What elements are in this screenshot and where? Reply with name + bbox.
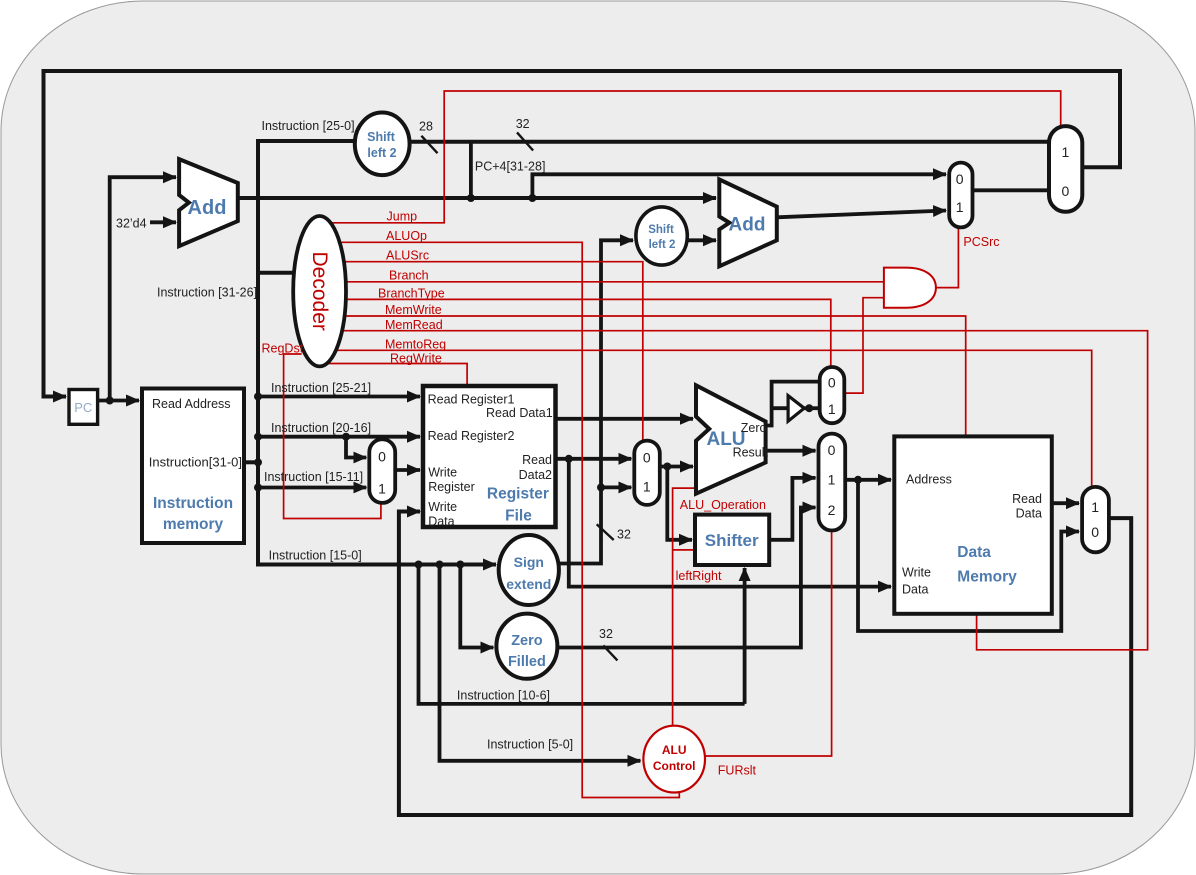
- svg-text:Instruction[31-0]: Instruction[31-0]: [149, 455, 242, 470]
- wire: instruction bus from memory up to Shift left 2 and down to Instruction[15-0] into Sign extend: [258, 141, 496, 565]
- junction Instruction[20-16] branch: [342, 433, 350, 441]
- wire: NOT gate input stub: [772, 406, 789, 410]
- svg-text:FURslt: FURslt: [718, 764, 757, 778]
- svg-text:Read Register1: Read Register1: [428, 393, 515, 407]
- junction bus Instruction[15-11]: [254, 484, 262, 492]
- wire: RegDst control to RegDst mux select: [284, 354, 381, 519]
- zero filled ellipse: [496, 614, 557, 679]
- bus width slash 32 (jump address): [517, 132, 533, 150]
- wire: Shifter output to result mux input 1: [769, 478, 815, 540]
- wire: BranchType control to branch-type mux select: [345, 299, 831, 367]
- sign extend ellipse: [499, 535, 559, 605]
- wire: result mux output to Data Memory Address: [845, 478, 891, 482]
- svg-text:Instruction [10-6]: Instruction [10-6]: [457, 689, 550, 703]
- decoder ellipse: [293, 216, 346, 366]
- wire: Read Data2 to ALUSrc mux input 0: [556, 457, 632, 461]
- wire: result bypass below Data Memory to write-back mux input 0: [858, 480, 1079, 631]
- PC register box: [69, 390, 98, 425]
- wire: MemRead control around right side to Data Memory bottom: [342, 331, 1148, 650]
- svg-text:ALUSrc: ALUSrc: [386, 249, 429, 263]
- svg-text:Jump: Jump: [387, 210, 418, 224]
- junction sign extend branch: [597, 483, 605, 491]
- bus width slash 28: [421, 136, 437, 153]
- wire: RegWrite control to Register File: [327, 364, 468, 386]
- svg-text:1: 1: [956, 199, 964, 215]
- svg-text:32: 32: [617, 528, 631, 542]
- mux branch-type (0/1): [820, 367, 845, 423]
- junction NOT gate output: [805, 404, 813, 412]
- svg-text:Shifter: Shifter: [705, 531, 759, 550]
- wire: ALUSrc mux output branch to Shifter input: [667, 467, 692, 540]
- svg-text:Write: Write: [902, 566, 931, 580]
- svg-text:Register: Register: [487, 486, 549, 503]
- svg-text:ALU_Operation: ALU_Operation: [680, 498, 766, 512]
- svg-text:Branch: Branch: [389, 269, 429, 283]
- svg-text:Instruction [31-26]: Instruction [31-26]: [157, 286, 257, 300]
- mux write-back (1/0): [1082, 487, 1109, 552]
- wire: PC output up to Add1 top input: [110, 177, 176, 400]
- svg-text:0: 0: [1062, 183, 1070, 199]
- svg-text:Shift: Shift: [367, 130, 396, 144]
- wire: 32'd4 constant into Add1: [150, 220, 176, 224]
- svg-text:Write: Write: [428, 466, 457, 480]
- wire: Read Data1 to ALU top input: [556, 417, 694, 421]
- wire: ALU Zero output to branch-type mux input 0: [766, 382, 820, 426]
- wire: ALUOp control down and around to ALU Control: [339, 242, 679, 797]
- svg-text:32’d4: 32’d4: [116, 217, 147, 231]
- svg-text:1: 1: [643, 479, 651, 495]
- svg-text:0: 0: [828, 442, 836, 458]
- svg-text:28: 28: [419, 120, 433, 134]
- wire: ALUSrc mux output to ALU bottom input: [660, 465, 693, 469]
- svg-text:Register: Register: [428, 480, 475, 494]
- svg-text:Sign: Sign: [514, 554, 544, 570]
- svg-text:Result: Result: [733, 446, 769, 460]
- svg-text:RegDst: RegDst: [262, 342, 304, 356]
- svg-text:PCSrc: PCSrc: [963, 235, 999, 249]
- wire: PCSrc mux output to jump mux input 0: [973, 188, 1050, 192]
- svg-text:Control: Control: [653, 759, 696, 773]
- wire: instruction memory output to bus: [244, 460, 258, 464]
- wire: ALU Result to result mux input 0: [766, 449, 816, 453]
- adder Add1 (PC+4): [179, 159, 238, 246]
- svg-text:32: 32: [516, 117, 530, 131]
- junction Instruction[15-0] a: [415, 561, 423, 569]
- svg-text:0: 0: [643, 450, 651, 466]
- svg-text:Data: Data: [957, 544, 991, 561]
- wire: Shift left 2 (branch) output into Add2: [687, 238, 716, 242]
- svg-text:Read: Read: [522, 453, 552, 467]
- junction jump address: [467, 194, 475, 202]
- svg-text:RegWrite: RegWrite: [390, 351, 442, 365]
- svg-text:2: 2: [828, 502, 836, 518]
- junction bus Instruction[20-16]: [254, 433, 262, 441]
- svg-text:Instruction: Instruction: [153, 495, 233, 512]
- wire: NOT gate output stub to branch-type mux input 1: [804, 406, 820, 410]
- junction result mux output: [854, 476, 862, 484]
- ALU: [696, 385, 766, 493]
- junction Read Data2: [565, 455, 573, 463]
- svg-text:MemtoReg: MemtoReg: [385, 337, 446, 351]
- wire: Instruction [31-26] into Decoder: [258, 271, 300, 275]
- svg-text:Read: Read: [1012, 492, 1042, 506]
- wire: ALU_Operation / leftRight from ALU Control up to ALU and Shifter: [673, 488, 695, 726]
- svg-text:Decoder: Decoder: [308, 252, 331, 331]
- wire: leftRight stub into Shifter: [673, 549, 696, 551]
- svg-text:Instruction [20-16]: Instruction [20-16]: [271, 421, 371, 435]
- wire: Add2 output to PCSrc mux input 1: [777, 211, 946, 218]
- mux jump (1/0): [1049, 126, 1082, 212]
- svg-text:Data: Data: [428, 515, 454, 529]
- wire: Read Data2 branch down to Data Memory Write Data: [569, 459, 891, 587]
- svg-text:MemRead: MemRead: [385, 318, 443, 332]
- wire: write-back mux output around bottom to Register File Write Data: [399, 512, 1131, 816]
- wire: MemWrite control to Data Memory: [344, 316, 966, 436]
- svg-text:Data: Data: [902, 583, 928, 597]
- wire: Instruction [20-16] to Read Register2: [258, 435, 420, 439]
- svg-text:32: 32: [599, 627, 613, 641]
- wire: ALUSrc control to ALUSrc mux select: [343, 262, 643, 441]
- NOT gate triangle: [788, 396, 804, 422]
- svg-text:Instruction [15-11]: Instruction [15-11]: [264, 470, 363, 484]
- svg-text:1: 1: [378, 481, 386, 497]
- wire: MemtoReg control to write-back mux select: [337, 350, 1092, 487]
- svg-text:Data2: Data2: [519, 468, 552, 482]
- svg-text:ALUOp: ALUOp: [386, 229, 427, 243]
- junction Instruction[15-0] c: [456, 561, 464, 569]
- wire: Sign extend output up to Shift left 2 (branch): [558, 240, 633, 563]
- wire: branch-type mux output to AND gate bottom input: [844, 298, 884, 393]
- adder Add2 (branch target): [719, 179, 777, 266]
- svg-text:Data: Data: [1016, 507, 1042, 521]
- wire: Instruction [15-11] to RegDst mux input 1: [258, 486, 366, 490]
- svg-text:1: 1: [1091, 499, 1099, 515]
- svg-text:MemWrite: MemWrite: [385, 303, 442, 317]
- svg-text:1: 1: [828, 472, 836, 488]
- junction ALUSrc mux output: [663, 463, 671, 471]
- wire: Instruction [15-0] branch into Zero Filled: [460, 565, 493, 648]
- svg-text:Address: Address: [906, 473, 952, 487]
- svg-text:Read Data1: Read Data1: [486, 406, 553, 420]
- wire: Jump control to jump mux select: [331, 91, 1061, 223]
- mux result (0/1/2): [819, 434, 846, 531]
- svg-text:Read Address: Read Address: [152, 397, 231, 411]
- svg-text:Write: Write: [428, 500, 457, 514]
- mux ALUSrc (0/1): [634, 441, 660, 505]
- svg-text:left 2: left 2: [367, 146, 396, 160]
- wire: Instruction [25-21] to Read Register1: [258, 395, 420, 399]
- svg-text:Add: Add: [188, 197, 227, 219]
- shift left 2 (jump) ellipse: [355, 113, 410, 176]
- svg-text:leftRight: leftRight: [676, 569, 722, 583]
- svg-text:PC+4[31-28]: PC+4[31-28]: [475, 160, 546, 174]
- mux RegDst (0/1): [369, 439, 395, 503]
- svg-text:Memory: Memory: [957, 569, 1017, 586]
- junction bus memory output: [254, 458, 262, 466]
- svg-text:1: 1: [1062, 144, 1070, 160]
- wire: AND gate output PCSrc to PCSrc mux select: [936, 227, 959, 287]
- svg-text:BranchType: BranchType: [378, 286, 445, 300]
- wire: sign extended immediate to ALUSrc mux input 1: [601, 485, 631, 489]
- wire: PC output to instruction memory Read Address: [98, 399, 139, 403]
- svg-text:0: 0: [828, 375, 836, 391]
- svg-text:0: 0: [956, 171, 964, 187]
- bus width slash 32 (sign extend): [597, 524, 614, 540]
- wire: Zero Filled output to result mux input 2: [557, 508, 815, 648]
- instruction memory box: [142, 389, 244, 544]
- svg-text:0: 0: [378, 449, 386, 465]
- svg-text:Instruction [15-0]: Instruction [15-0]: [269, 549, 362, 563]
- wire: Data Memory Read Data to write-back mux input 1: [1052, 501, 1079, 505]
- svg-text:extend: extend: [506, 576, 551, 592]
- svg-text:Zero: Zero: [511, 633, 543, 649]
- wire: RegDst mux output to Write Register: [395, 468, 420, 472]
- wire: Instruction [10-6] shamt up into Shifter: [743, 568, 747, 704]
- junction bus Instruction[25-21]: [254, 393, 262, 401]
- svg-text:Filled: Filled: [508, 654, 546, 670]
- svg-text:ALU: ALU: [662, 743, 687, 757]
- svg-text:Instruction [25-0]: Instruction [25-0]: [262, 119, 355, 133]
- svg-text:Instruction [25-21]: Instruction [25-21]: [271, 381, 371, 395]
- register file box: [423, 386, 556, 527]
- svg-text:Shift: Shift: [648, 224, 674, 236]
- svg-text:PC: PC: [74, 400, 92, 415]
- wire: Instruction [20-16] branch to RegDst mux input 0: [346, 437, 366, 458]
- svg-text:left 2: left 2: [649, 239, 676, 251]
- svg-text:0: 0: [1091, 524, 1099, 540]
- svg-text:Zero: Zero: [741, 421, 767, 435]
- svg-text:File: File: [505, 508, 532, 525]
- wire: Add1 output PC+4 to Add2 top input: [238, 196, 716, 200]
- wire: Instruction [10-6] row: [419, 565, 745, 704]
- shift left 2 (branch) ellipse: [636, 207, 687, 265]
- svg-text:memory: memory: [163, 516, 224, 533]
- AND gate (branch and zero): [884, 268, 936, 308]
- shifter box: [695, 515, 769, 565]
- bus width slash 32 (zero filled): [603, 645, 617, 660]
- svg-text:Instruction [5-0]: Instruction [5-0]: [487, 738, 573, 752]
- wire: FURslt from ALU Control to result mux select: [705, 531, 832, 757]
- ALU control ellipse: [643, 726, 705, 793]
- svg-text:Read Register2: Read Register2: [428, 429, 515, 443]
- svg-text:Add: Add: [729, 215, 766, 236]
- wire: jump address join from PC+4 wire up to shifted bus: [469, 142, 473, 198]
- junction PC output: [106, 397, 114, 405]
- data memory box: [894, 436, 1052, 613]
- mux PCSrc (0/1): [949, 163, 972, 228]
- wire: Branch control to AND gate top input: [345, 281, 884, 283]
- wire: Shift left 2 output 28-bit / 32-bit jump address to jump mux input 1: [410, 140, 1049, 144]
- junction Instruction[15-0] b: [436, 561, 444, 569]
- svg-text:1: 1: [828, 401, 836, 417]
- junction PC+4[31-28]: [528, 194, 536, 202]
- wire: Instruction [5-0] into ALU Control: [440, 565, 641, 761]
- wire: PC feedback loop from jump mux output around top to PC input: [44, 71, 1121, 397]
- wire: PC+4[31-28] branch to PCSrc mux input 0: [532, 174, 946, 198]
